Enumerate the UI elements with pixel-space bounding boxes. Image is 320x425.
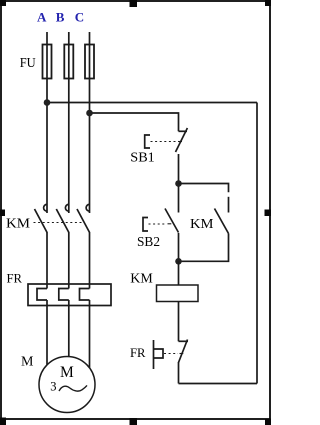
fuse FU phase B bbox=[64, 45, 73, 79]
start button SB2 label bbox=[137, 234, 160, 249]
label FR (control contact) bbox=[130, 345, 146, 360]
wire SB1 to junction 1 bbox=[178, 154, 180, 181]
label M (motor, external) bbox=[21, 354, 34, 369]
svg-text:FR: FR bbox=[7, 270, 23, 285]
label KM (coil) bbox=[130, 270, 153, 285]
contactor KM main contact pole B bbox=[56, 204, 69, 232]
wire phase A KM to FR bbox=[46, 232, 48, 289]
motor tilde (AC symbol) bbox=[59, 385, 87, 391]
wire coil to FR contact bbox=[178, 302, 180, 342]
KM aux contact upper terminal (dashed piece) bbox=[228, 197, 230, 213]
wire phase B fuse to KM contact bbox=[68, 79, 70, 214]
node C label bbox=[75, 10, 84, 25]
FR heater element phase A bbox=[37, 289, 47, 301]
mechanical linkage dashed line of KM main contacts bbox=[34, 222, 85, 224]
stop button SB1 (NC) contact bbox=[176, 128, 188, 152]
wire phase A fuse to KM contact bbox=[46, 79, 48, 214]
wire phase C top stub bbox=[89, 32, 91, 79]
wire phase B KM to FR bbox=[68, 232, 70, 289]
svg-text:FR: FR bbox=[130, 345, 146, 360]
start button SB2 upper terminal bbox=[178, 186, 180, 213]
wire phase C FR to motor bbox=[89, 300, 91, 368]
svg-text:3: 3 bbox=[50, 380, 56, 394]
thermal relay FR (NC) contact bbox=[179, 340, 189, 363]
svg-text:C: C bbox=[75, 10, 84, 25]
wire control feed top (phase A to right rail) bbox=[47, 102, 257, 104]
SB2 actuator dashed link bbox=[149, 223, 172, 225]
SB1 actuator dashed link bbox=[151, 141, 183, 143]
wire KM aux to junction 2 bbox=[182, 234, 229, 262]
motor label M inside bbox=[60, 364, 74, 381]
svg-text:M: M bbox=[21, 354, 34, 369]
svg-text:KM: KM bbox=[130, 270, 153, 285]
motor label 3 inside bbox=[50, 380, 56, 394]
SB1 actuator bracket bbox=[145, 135, 150, 148]
svg-text:SB2: SB2 bbox=[137, 234, 160, 249]
svg-text:SB1: SB1 bbox=[130, 149, 155, 164]
wire phase C KM to FR bbox=[89, 232, 91, 289]
wire bottom return bbox=[179, 383, 258, 385]
fuse FU phase C bbox=[85, 45, 94, 79]
fuse FU phase A bbox=[43, 45, 52, 79]
wire phase B top stub bbox=[68, 32, 70, 79]
label KM (main contacts) bbox=[6, 215, 30, 230]
wire SB2 to junction 2 bbox=[178, 233, 180, 259]
FR heater element phase C bbox=[80, 289, 90, 301]
svg-text:KM: KM bbox=[6, 215, 30, 230]
label FR (thermal relay heaters) bbox=[7, 270, 23, 285]
junction 2 (above coil) bbox=[175, 258, 182, 265]
junction on phase C bbox=[86, 110, 93, 117]
svg-text:FU: FU bbox=[20, 56, 36, 71]
contactor KM coil bbox=[157, 285, 199, 302]
wire phase A FR to motor bbox=[46, 300, 48, 365]
contactor KM main contact pole C bbox=[77, 204, 90, 232]
wire control feed (phase C to SB1) bbox=[90, 113, 179, 131]
wire phase A top stub bbox=[46, 32, 48, 79]
FR actuator dashed link bbox=[164, 353, 183, 355]
contactor KM main contact pole A bbox=[35, 204, 48, 232]
wire right rail bbox=[256, 103, 258, 384]
svg-text:M: M bbox=[60, 364, 74, 381]
wire phase C fuse to KM contact bbox=[89, 79, 91, 214]
wire junction 2 to coil bbox=[178, 261, 180, 285]
junction 1 (below SB1) bbox=[175, 180, 182, 187]
wire branch to KM aux contact (top) bbox=[179, 184, 229, 193]
wire FR contact to bottom rail bbox=[178, 362, 180, 384]
svg-text:KM: KM bbox=[190, 216, 214, 231]
node A label bbox=[37, 10, 47, 25]
SB2 actuator bracket bbox=[143, 218, 148, 232]
junction on phase A bbox=[44, 99, 51, 106]
FR heater element phase B bbox=[59, 289, 69, 301]
svg-text:A: A bbox=[37, 10, 47, 25]
motor M circle bbox=[39, 357, 95, 413]
wire phase B FR to motor bbox=[68, 300, 70, 357]
contactor KM auxiliary contact (NO) blade bbox=[215, 209, 229, 234]
label FU bbox=[20, 56, 36, 71]
FR actuator hook symbol bbox=[154, 340, 164, 369]
node B label bbox=[56, 10, 65, 25]
start button SB2 (NO) blade bbox=[165, 209, 179, 233]
label KM (aux contact) bbox=[190, 216, 214, 231]
svg-text:B: B bbox=[56, 10, 65, 25]
stop button SB1 label bbox=[130, 149, 155, 164]
thermal relay FR box bbox=[28, 284, 111, 306]
